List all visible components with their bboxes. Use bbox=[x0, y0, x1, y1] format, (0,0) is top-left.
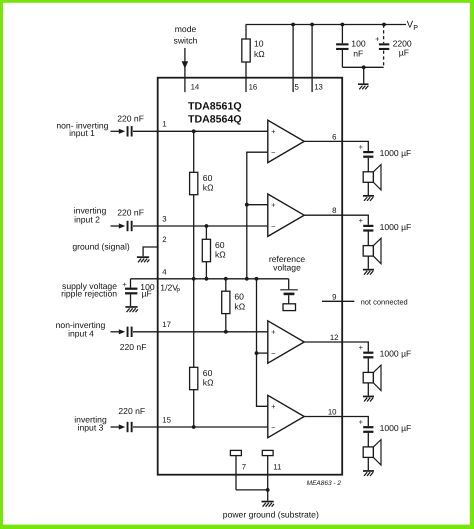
junction dot pin1/R2 bbox=[192, 129, 196, 133]
svg-text:µF: µF bbox=[399, 47, 409, 57]
svg-text:P: P bbox=[413, 23, 418, 32]
loudspeaker LS2 bbox=[363, 246, 373, 257]
wire pin 9 stub bbox=[322, 300, 354, 302]
wire LS3 to ground bbox=[367, 383, 369, 396]
svg-text:+: + bbox=[271, 328, 276, 337]
reference voltage cell box bbox=[283, 304, 296, 311]
junction dot rail feedback2 bbox=[255, 277, 259, 281]
label non-inverting input 1 bbox=[56, 121, 109, 433]
wire pin 5 riser bbox=[292, 25, 294, 93]
svg-text:+: + bbox=[359, 142, 364, 151]
svg-text:1000 µF: 1000 µF bbox=[380, 423, 412, 433]
wire pin 12 output bbox=[304, 342, 368, 352]
svg-text:11: 11 bbox=[273, 463, 281, 472]
svg-text:+: + bbox=[359, 418, 364, 427]
loudspeaker LS3 bbox=[363, 372, 373, 383]
reference voltage cell stem bbox=[288, 295, 290, 304]
svg-text:100: 100 bbox=[351, 38, 366, 48]
capacitor C7 220 nF input 4 plates bbox=[127, 327, 129, 337]
svg-text:input 1: input 1 bbox=[69, 128, 95, 138]
mode switch arrowhead bbox=[182, 61, 189, 68]
wire pin 1 bbox=[133, 130, 268, 132]
capacitor C12 1000 uF to LS4 lead bbox=[367, 433, 369, 447]
capacitor C2 100 nF leads bbox=[341, 25, 343, 44]
op-amp U1B bbox=[268, 194, 304, 236]
resistor R1 10 kOhm bbox=[242, 39, 250, 62]
resistor R4 60 kOhm bbox=[222, 291, 230, 313]
svg-text:kΩ: kΩ bbox=[203, 182, 214, 192]
svg-text:−: − bbox=[271, 222, 276, 231]
wire top ground joining line bbox=[342, 66, 383, 68]
wire pin 7 down bbox=[235, 456, 237, 490]
loudspeaker LS1 bbox=[363, 172, 373, 183]
svg-text:TDA8564Q: TDA8564Q bbox=[188, 114, 242, 126]
input 2 arrowhead bbox=[119, 223, 125, 228]
mode switch label bbox=[174, 24, 198, 46]
ground LS1 bbox=[363, 195, 374, 201]
svg-text:15: 15 bbox=[162, 415, 171, 424]
value labels 60 kOhm bbox=[203, 173, 246, 388]
wire amp2 non-inverting tap bbox=[247, 204, 268, 206]
ground top (filter caps) bbox=[358, 83, 369, 89]
svg-text:3: 3 bbox=[162, 214, 166, 223]
capacitor C10 1000 uF to LS2 lead bbox=[367, 232, 369, 246]
wire input 1 arrow shaft bbox=[111, 130, 120, 132]
IC U1 part number labels bbox=[188, 100, 242, 125]
channel 4 output network bbox=[363, 433, 381, 470]
op-amp input polarity signs bbox=[271, 127, 276, 432]
svg-text:1000 µF: 1000 µF bbox=[380, 148, 412, 158]
wire joining pins 7/11 bbox=[236, 489, 268, 491]
capacitor C2 100 nF plates bbox=[291, 23, 389, 70]
svg-text:60: 60 bbox=[234, 292, 244, 302]
svg-text:220 nF: 220 nF bbox=[120, 342, 147, 352]
svg-text:kΩ: kΩ bbox=[203, 377, 214, 387]
svg-text:voltage: voltage bbox=[273, 262, 301, 272]
wire feedback amp1 inverting bbox=[247, 152, 268, 279]
svg-text:not connected: not connected bbox=[361, 297, 408, 306]
capacitor C9 1000 uF to LS1 lead bbox=[367, 158, 369, 172]
svg-text:+: + bbox=[359, 216, 364, 225]
ground LS3 bbox=[363, 396, 374, 402]
channel 2 output network bbox=[363, 232, 381, 269]
wire input 4 arrow shaft bbox=[111, 331, 120, 333]
wire R3 to rail bbox=[205, 262, 207, 279]
pin numbers right bbox=[328, 132, 339, 416]
wire pin 8 output bbox=[304, 215, 368, 225]
wire LS2 to ground bbox=[367, 256, 369, 269]
wire supply rail Vp bbox=[246, 24, 406, 26]
wire pin 15 bbox=[133, 426, 268, 428]
wire LS4 to ground bbox=[367, 457, 369, 470]
capacitor C5 220 nF input 1 plates bbox=[127, 126, 129, 136]
wire pin 3 bbox=[133, 225, 268, 227]
capacitor C6 220 nF input 2 plates bbox=[127, 221, 129, 231]
svg-text:kΩ: kΩ bbox=[254, 49, 265, 59]
capacitor C3 2200 uF plates bbox=[379, 43, 389, 45]
svg-text:input 2: input 2 bbox=[74, 214, 100, 224]
resistor R5 60 kOhm bbox=[190, 367, 198, 389]
svg-text:input 4: input 4 bbox=[68, 328, 94, 338]
svg-text:+: + bbox=[359, 343, 364, 352]
svg-text:kΩ: kΩ bbox=[215, 249, 226, 259]
ground C4 100uF bbox=[125, 306, 137, 312]
wire pin 4 1/2Vp rail bbox=[131, 278, 289, 280]
svg-text:220 nF: 220 nF bbox=[118, 406, 145, 416]
svg-text:input 3: input 3 bbox=[78, 423, 104, 433]
svg-text:ground (signal): ground (signal) bbox=[72, 241, 129, 251]
svg-text:1000 µF: 1000 µF bbox=[380, 349, 412, 359]
op-amp U1D bbox=[268, 395, 304, 437]
ground LS2 bbox=[363, 269, 374, 275]
svg-text:60: 60 bbox=[215, 240, 225, 250]
junction dot rail pin5 bbox=[291, 23, 295, 27]
wire R2 chain upper bbox=[193, 131, 195, 172]
svg-text:17: 17 bbox=[162, 320, 171, 329]
wire R2 to rail bbox=[193, 195, 195, 279]
svg-text:P: P bbox=[176, 288, 180, 295]
svg-text:−: − bbox=[271, 423, 276, 432]
junction dot rail R4 bbox=[224, 277, 228, 281]
wire pin 16 riser lower bbox=[245, 62, 247, 92]
pin 11 tab bbox=[262, 450, 273, 455]
svg-text:7: 7 bbox=[242, 463, 246, 472]
wire top ground stem bbox=[363, 67, 365, 83]
input 3 arrowhead bbox=[119, 424, 125, 429]
junction dot R5 pin15 bbox=[192, 425, 196, 429]
svg-text:6: 6 bbox=[332, 132, 336, 141]
wire pin 16 riser upper bbox=[245, 25, 247, 40]
wire pin 14 mode switch with arrowhead bbox=[184, 48, 186, 92]
channel 1 output network bbox=[363, 158, 381, 195]
wire reference voltage branch bbox=[288, 279, 290, 290]
svg-text:−: − bbox=[271, 349, 276, 358]
wire pin 2 ground (signal) bbox=[143, 247, 158, 256]
wire input 3 arrow shaft bbox=[111, 426, 120, 428]
reference voltage cell thin plate bbox=[280, 289, 298, 291]
junction dot power ground bbox=[266, 488, 270, 492]
capacitor C3 2200 uF dashed leads bbox=[383, 25, 385, 44]
wire amp3 inverting tap bbox=[257, 352, 268, 354]
junction dot rail R2 bbox=[192, 277, 196, 281]
capacitor C12 1000 uF plates bbox=[363, 426, 373, 428]
svg-text:220 nF: 220 nF bbox=[117, 208, 144, 218]
svg-text:+: + bbox=[122, 280, 127, 289]
ground (signal) symbol bbox=[137, 256, 150, 262]
svg-text:ripple rejection: ripple rejection bbox=[61, 289, 117, 299]
svg-text:9: 9 bbox=[332, 292, 336, 301]
label reference voltage bbox=[269, 254, 306, 272]
svg-text:MEA863 - 2: MEA863 - 2 bbox=[307, 480, 342, 487]
svg-text:1000 µF: 1000 µF bbox=[380, 222, 412, 232]
ground LS4 bbox=[363, 470, 374, 476]
resistor R3 60 kOhm bbox=[202, 239, 210, 261]
wire feedback amp3/amp4 bbox=[257, 279, 268, 407]
svg-text:14: 14 bbox=[191, 83, 200, 92]
capacitor C4 100 uF plates bbox=[125, 288, 137, 290]
loudspeaker LS4 bbox=[363, 447, 373, 458]
wire input 2 arrow shaft bbox=[111, 225, 120, 227]
op-amp U1A bbox=[268, 120, 304, 438]
junction dot top ground bbox=[362, 65, 366, 69]
capacitor C9 1000 uF plates bbox=[363, 151, 373, 153]
junction dot pin3/R3 bbox=[205, 224, 209, 228]
resistor R2 60 kOhm bbox=[190, 172, 198, 194]
wire pin 10 output bbox=[304, 417, 368, 427]
wire R3 upper bbox=[205, 226, 207, 239]
svg-text:4: 4 bbox=[162, 268, 167, 277]
svg-text:power ground (substrate): power ground (substrate) bbox=[223, 510, 319, 520]
junction dot rail C3 bbox=[382, 23, 386, 27]
wire R4 upper (from rail) bbox=[225, 279, 227, 291]
junction dot R4 pin17 bbox=[224, 330, 228, 334]
wire R4 to pin 17 bbox=[225, 314, 227, 332]
svg-text:−: − bbox=[271, 148, 276, 157]
capacitor C11 1000 uF to LS3 lead bbox=[367, 358, 369, 372]
wire pin 11 down bbox=[267, 456, 269, 501]
capacitor C11 1000 uF plates bbox=[363, 352, 373, 354]
wire pin 13 riser bbox=[311, 25, 313, 93]
wire C4 100uF top lead bbox=[130, 279, 132, 288]
input 4 arrowhead bbox=[119, 329, 125, 334]
wire R5 upper (from rail, crosses pin 17) bbox=[193, 279, 195, 368]
svg-text:µF: µF bbox=[142, 289, 152, 299]
svg-text:2: 2 bbox=[162, 235, 166, 244]
svg-text:220 nF: 220 nF bbox=[117, 113, 144, 123]
svg-text:8: 8 bbox=[332, 206, 336, 215]
input 1 arrowhead bbox=[119, 129, 125, 134]
svg-text:TDA8561Q: TDA8561Q bbox=[188, 100, 242, 112]
svg-text:5: 5 bbox=[295, 83, 300, 92]
pin numbers left bbox=[162, 119, 171, 424]
wire pin 6 output bbox=[304, 141, 368, 151]
wire C4 100uF bottom lead bbox=[130, 294, 132, 306]
junction dot amp2 tap bbox=[245, 203, 249, 207]
capacitor C8 220 nF input 3 plates bbox=[127, 422, 129, 432]
ground power (substrate) bbox=[262, 501, 275, 507]
wire R5 to pin 15 bbox=[193, 390, 195, 427]
svg-text:10: 10 bbox=[328, 408, 337, 417]
wire pin 17 bbox=[133, 331, 268, 333]
op-amp U1C bbox=[268, 321, 304, 363]
channel 3 output network bbox=[363, 358, 381, 395]
svg-text:nF: nF bbox=[353, 48, 363, 58]
wire LS1 to ground bbox=[367, 182, 369, 195]
svg-text:10: 10 bbox=[254, 38, 264, 48]
svg-text:+: + bbox=[375, 34, 380, 43]
junction dot amp3 tap bbox=[255, 351, 259, 355]
svg-text:+: + bbox=[271, 402, 276, 411]
svg-text:+: + bbox=[271, 127, 276, 136]
svg-text:mode: mode bbox=[175, 24, 197, 34]
svg-text:60: 60 bbox=[203, 173, 213, 183]
IC U1 TDA8561Q/TDA8564Q box bbox=[158, 78, 343, 475]
junction dot rail C2 bbox=[341, 23, 345, 27]
junction dot rail R3 bbox=[205, 277, 209, 281]
junction dot rail feedback1 bbox=[245, 277, 249, 281]
svg-text:13: 13 bbox=[314, 83, 323, 92]
reference voltage cell thick plate bbox=[284, 293, 295, 296]
junction dot rail pin13 bbox=[310, 23, 314, 27]
svg-text:1: 1 bbox=[162, 119, 166, 128]
pin number 14 bbox=[191, 83, 323, 92]
svg-text:+: + bbox=[271, 200, 276, 209]
svg-text:switch: switch bbox=[174, 36, 198, 46]
capacitor C10 1000 uF plates bbox=[363, 225, 373, 227]
svg-text:12: 12 bbox=[330, 333, 339, 342]
pin 7 tab bbox=[230, 450, 241, 455]
value label 10 kOhm bbox=[254, 38, 412, 59]
svg-text:kΩ: kΩ bbox=[234, 301, 245, 311]
svg-text:16: 16 bbox=[249, 83, 258, 92]
svg-text:60: 60 bbox=[203, 368, 213, 378]
